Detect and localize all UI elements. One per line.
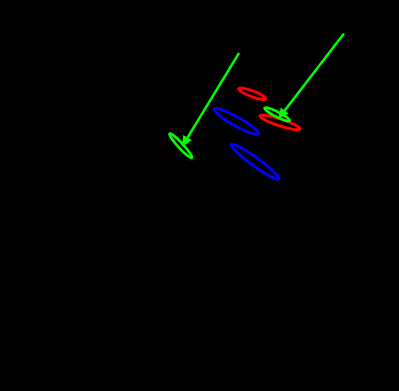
- green ellipse right: [263, 106, 290, 123]
- green arrow left: [182, 53, 239, 147]
- blue ellipse bottom: [229, 141, 282, 182]
- green ellipse left: [168, 132, 194, 160]
- red ellipse bottom: [259, 113, 301, 133]
- blue ellipse top: [212, 105, 260, 138]
- green arrow right: [278, 34, 344, 119]
- red ellipse top: [238, 86, 267, 102]
